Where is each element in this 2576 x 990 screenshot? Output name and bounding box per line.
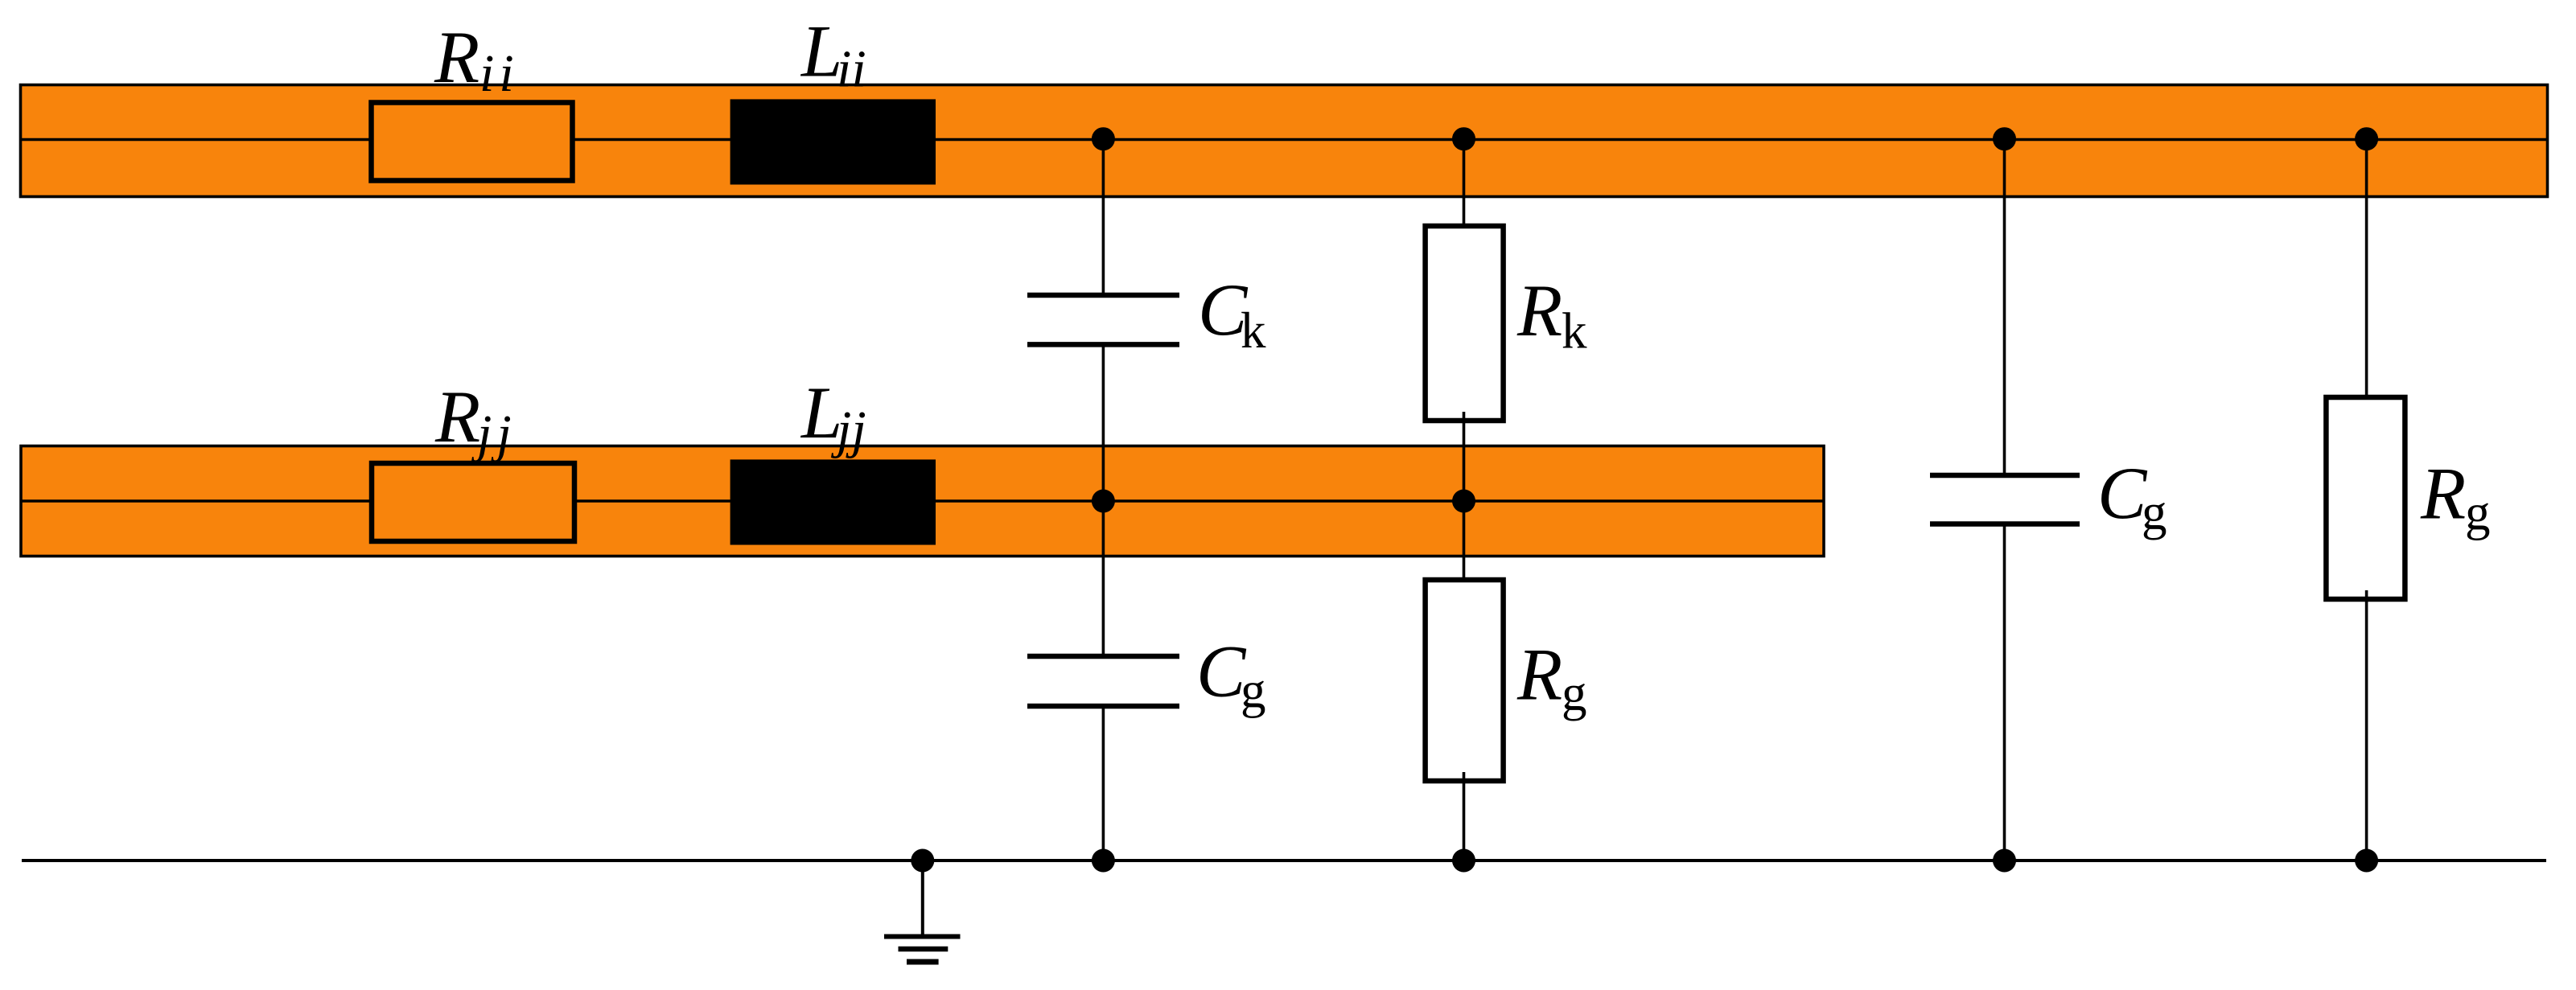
svg-text:g: g xyxy=(1562,665,1587,721)
wire (bar j to Cg top plate) xyxy=(1102,501,1105,656)
conductor bar j (second transmission line) xyxy=(21,446,1824,557)
svg-text:g: g xyxy=(2465,485,2491,541)
node on ground at Rg chain xyxy=(1452,849,1475,873)
inductor Ljj xyxy=(730,459,936,544)
svg-text:R: R xyxy=(2420,453,2466,535)
svg-text:R: R xyxy=(434,16,479,98)
ground wire (bottom rail) xyxy=(22,859,2546,862)
resistor Rg (below bar j) xyxy=(1426,580,1504,781)
svg-text:k: k xyxy=(1241,302,1266,359)
wire (Cg bottom plate to ground) xyxy=(1102,706,1105,861)
node at ground symbol xyxy=(911,849,934,873)
svg-text:g: g xyxy=(2142,484,2167,540)
ground symbol xyxy=(884,935,961,939)
svg-text:ii: ii xyxy=(479,44,519,103)
resistor Rg (right) xyxy=(2326,397,2405,599)
wire (bar j center, right of Rjj) xyxy=(534,499,1824,502)
resistor Rii xyxy=(372,103,573,181)
node on bar j at Ck/Cg chain xyxy=(1092,490,1115,513)
svg-text:R: R xyxy=(434,376,480,458)
wire (bar j to Rg top) xyxy=(1463,501,1466,589)
wire (Rk bottom to bar j) xyxy=(1463,412,1466,501)
wire (bar i to Ck top plate) xyxy=(1102,139,1105,295)
resistor Rk xyxy=(1426,226,1504,421)
svg-text:R: R xyxy=(1516,634,1562,716)
node on bar i at Rk chain xyxy=(1452,127,1475,150)
wire (bar i to right Rg top) xyxy=(2365,139,2368,406)
node on ground at right Rg chain xyxy=(2355,849,2378,873)
wire (Ck bottom plate to bar j) xyxy=(1102,344,1105,501)
node on bar i at right Cg chain xyxy=(1993,127,2016,150)
svg-text:C: C xyxy=(2097,452,2148,534)
resistor Rjj xyxy=(372,463,574,541)
capacitor Cg (right) xyxy=(1930,473,2080,479)
wire (bar i center, left of Rii) xyxy=(21,138,384,141)
wire (ground stub) xyxy=(921,861,924,935)
node on ground at right Cg chain xyxy=(1993,849,2016,873)
svg-text:g: g xyxy=(1241,663,1266,719)
node on bar i at right Rg chain xyxy=(2355,127,2378,150)
svg-text:R: R xyxy=(1516,269,1562,351)
inductor Lii xyxy=(730,99,936,184)
node on ground at Cg chain xyxy=(1092,849,1115,873)
wire (bar i to Rk top) xyxy=(1463,139,1466,235)
conductor bar i (top transmission line) xyxy=(21,85,2548,197)
wire (bar i to right Cg top plate) xyxy=(2003,139,2006,475)
capacitor Ck xyxy=(1027,293,1179,298)
wire (right Rg bottom to ground) xyxy=(2365,590,2368,861)
wire (right Cg bottom plate to ground) xyxy=(2003,524,2006,861)
capacitor Cg (below bar j) xyxy=(1027,654,1179,659)
wire (bar j center, left of Rjj) xyxy=(21,499,383,502)
node on bar j at Rk/Rg chain xyxy=(1452,490,1475,513)
svg-text:ii: ii xyxy=(837,40,866,99)
svg-text:k: k xyxy=(1562,303,1587,359)
node on bar i at Ck chain xyxy=(1092,127,1115,150)
svg-text:C: C xyxy=(1196,631,1247,713)
wire (Rg bottom to ground) xyxy=(1463,772,1466,861)
wire (bar i center, right of Rii) xyxy=(534,138,2548,141)
svg-text:jj: jj xyxy=(471,405,516,463)
